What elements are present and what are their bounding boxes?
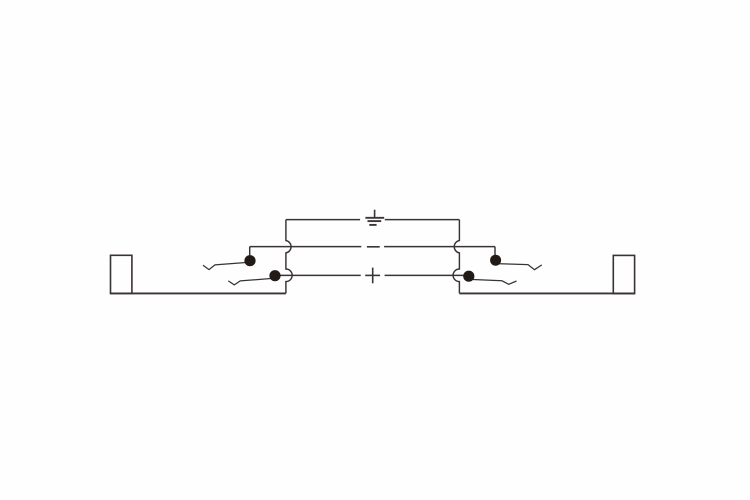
- switch SW1a lever (left jack tip contact, normally closed): [203, 263, 246, 270]
- wire: minus net, right segment (center to node B): [384, 246, 495, 248]
- wire: bottom ground bus, J1 to left jack body: [110, 292, 286, 294]
- wire: left sleeve riser with crossover hops (node S-L): [286, 220, 292, 294]
- label: minus polarity dash: [367, 246, 380, 248]
- node C: left jack ring contact dot: [269, 270, 280, 281]
- node A: left jack tip contact dot: [244, 255, 255, 266]
- switch SW1b lever (left jack ring contact, normally closed): [228, 279, 271, 285]
- wire: right sleeve riser with crossover hops (node S-R): [453, 220, 459, 294]
- terminal J2 (right solder lug): [613, 255, 634, 293]
- wire: top ground net, right segment: [385, 219, 460, 221]
- terminal J1 (left solder lug): [111, 255, 132, 293]
- node B: right jack tip contact dot: [490, 255, 501, 266]
- wire: minus net, left segment (from node A to center): [250, 246, 362, 248]
- ground (earth symbol): [365, 210, 384, 225]
- wire: bottom ground bus, right jack body to J2: [459, 292, 634, 294]
- switch SW2a lever (right jack tip contact, normally closed): [499, 264, 542, 270]
- node D: right jack ring contact dot: [463, 271, 474, 282]
- wire: top ground net, left segment: [286, 219, 360, 221]
- wire: riser from minus net down to right switch contact (node B): [494, 247, 496, 258]
- label: plus polarity cross: [365, 268, 380, 284]
- wire: plus net, right segment (center to contact D): [385, 274, 469, 276]
- switch SW2b lever (right jack ring contact, normally closed): [473, 280, 517, 285]
- wire: riser from minus net down to left switch contact (node A): [249, 247, 251, 258]
- wire: plus net, left segment (from contact C to center): [275, 274, 361, 276]
